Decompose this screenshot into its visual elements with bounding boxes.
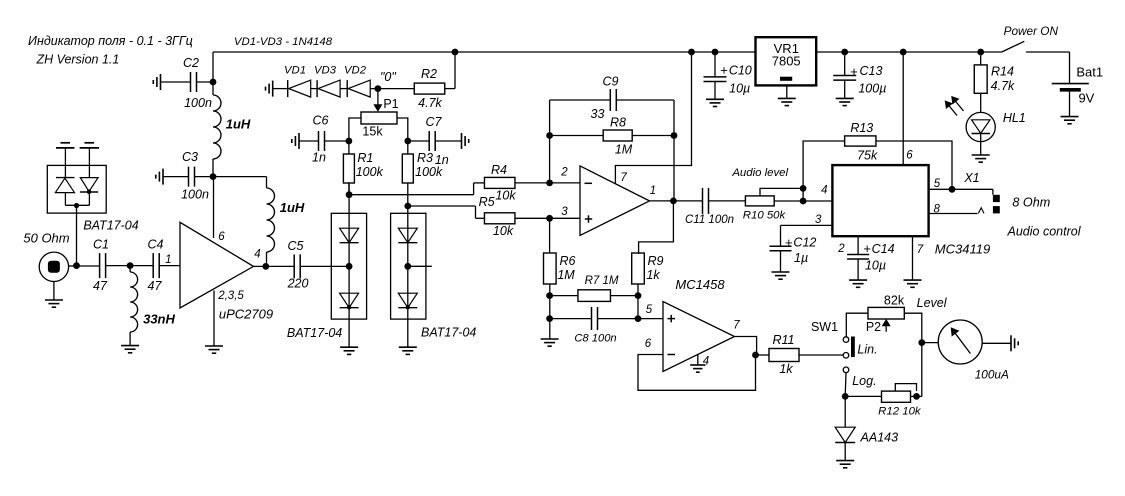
svg-text:47: 47 <box>148 279 163 293</box>
svg-text:2: 2 <box>837 243 845 255</box>
svg-text:R8: R8 <box>610 116 626 130</box>
svg-text:C6: C6 <box>313 114 329 128</box>
svg-text:R4: R4 <box>491 163 507 177</box>
svg-text:3: 3 <box>561 206 568 218</box>
svg-text:10k: 10k <box>493 224 514 238</box>
svg-text:Power ON: Power ON <box>1004 24 1059 38</box>
svg-text:R2: R2 <box>421 67 437 81</box>
svg-text:100µ: 100µ <box>858 81 886 95</box>
svg-text:C1: C1 <box>93 238 109 252</box>
svg-text:50 Ohm: 50 Ohm <box>23 231 69 246</box>
svg-text:100k: 100k <box>356 165 384 179</box>
svg-text:uPC2709: uPC2709 <box>219 307 273 322</box>
svg-text:C12: C12 <box>793 236 816 250</box>
svg-text:1: 1 <box>650 185 656 197</box>
svg-text:VD1-VD3 - 1N4148: VD1-VD3 - 1N4148 <box>234 36 333 48</box>
svg-text:R5: R5 <box>479 195 495 209</box>
svg-text:R13: R13 <box>850 121 873 135</box>
svg-text:BAT17-04: BAT17-04 <box>287 326 342 340</box>
svg-text:P1: P1 <box>383 97 398 111</box>
svg-text:BAT17-04: BAT17-04 <box>83 219 138 233</box>
svg-text:2: 2 <box>560 167 568 179</box>
svg-text:4.7k: 4.7k <box>991 79 1015 93</box>
svg-text:VD2: VD2 <box>344 65 367 77</box>
svg-text:7: 7 <box>620 172 627 184</box>
svg-text:100n: 100n <box>181 188 209 202</box>
svg-text:R11: R11 <box>772 333 794 347</box>
svg-text:SW1: SW1 <box>811 320 838 334</box>
svg-text:P2: P2 <box>866 320 881 334</box>
svg-text:4: 4 <box>821 184 827 196</box>
svg-text:1n: 1n <box>312 151 326 165</box>
svg-text:MC34119: MC34119 <box>935 242 990 257</box>
svg-text:6: 6 <box>645 338 652 350</box>
svg-text:10k: 10k <box>495 189 516 203</box>
svg-text:+: + <box>720 63 728 78</box>
svg-text:X1: X1 <box>963 171 979 185</box>
svg-text:1µ: 1µ <box>794 251 808 265</box>
svg-text:+: + <box>785 235 793 250</box>
svg-text:5: 5 <box>934 178 941 190</box>
svg-text:3: 3 <box>815 214 822 226</box>
svg-text:9V: 9V <box>1078 91 1094 106</box>
svg-text:C9: C9 <box>603 75 619 89</box>
svg-text:Audio control: Audio control <box>1007 225 1082 239</box>
svg-text:4: 4 <box>254 249 260 261</box>
svg-text:R3: R3 <box>417 151 433 165</box>
svg-text:VD1: VD1 <box>284 65 306 77</box>
svg-text:100uA: 100uA <box>975 368 1009 382</box>
svg-text:R9: R9 <box>648 254 664 268</box>
svg-text:C5: C5 <box>288 239 304 253</box>
svg-text:R12 10k: R12 10k <box>878 406 922 418</box>
svg-text:10µ: 10µ <box>865 259 886 273</box>
svg-text:MC1458: MC1458 <box>675 277 725 292</box>
svg-text:R14: R14 <box>991 65 1014 79</box>
svg-text:Log.: Log. <box>852 374 876 388</box>
svg-text:R7 1M: R7 1M <box>585 275 619 287</box>
svg-text:1M: 1M <box>615 143 633 157</box>
svg-text:AA143: AA143 <box>860 431 899 445</box>
svg-text:"0": "0" <box>380 70 396 84</box>
svg-text:C8 100n: C8 100n <box>574 333 616 345</box>
svg-text:BAT17-04: BAT17-04 <box>421 326 476 340</box>
svg-text:C2: C2 <box>183 56 199 70</box>
svg-text:C13: C13 <box>860 64 883 78</box>
svg-text:4.7k: 4.7k <box>418 96 442 110</box>
svg-text:33nH: 33nH <box>143 312 175 327</box>
svg-text:C11 100n: C11 100n <box>685 214 734 226</box>
svg-text:C10: C10 <box>729 64 752 78</box>
svg-text:Level: Level <box>917 296 948 310</box>
svg-text:Индикатор поля - 0.1 - 3ГГц: Индикатор поля - 0.1 - 3ГГц <box>28 34 193 48</box>
svg-text:1k: 1k <box>646 268 660 282</box>
svg-text:47: 47 <box>93 279 108 293</box>
svg-text:10µ: 10µ <box>729 82 750 96</box>
svg-text:15k: 15k <box>362 125 383 139</box>
svg-text:75k: 75k <box>857 149 878 163</box>
svg-text:R6: R6 <box>560 254 576 268</box>
svg-text:+: + <box>850 64 858 79</box>
svg-text:82k: 82k <box>884 294 905 308</box>
svg-text:2,3,5: 2,3,5 <box>217 290 244 302</box>
svg-text:Lin.: Lin. <box>857 343 877 357</box>
svg-text:6: 6 <box>906 150 913 162</box>
svg-text:5: 5 <box>646 304 653 316</box>
svg-text:ZH Version 1.1: ZH Version 1.1 <box>35 53 119 67</box>
svg-text:VD3: VD3 <box>314 65 337 77</box>
svg-text:C14: C14 <box>872 242 895 256</box>
svg-text:7805: 7805 <box>772 54 801 69</box>
svg-text:C3: C3 <box>182 150 198 164</box>
svg-text:7: 7 <box>917 244 924 256</box>
svg-text:+: + <box>863 241 871 256</box>
svg-text:220: 220 <box>287 277 309 291</box>
svg-text:6: 6 <box>218 231 225 243</box>
svg-text:7: 7 <box>733 320 740 332</box>
svg-text:HL1: HL1 <box>1003 111 1026 125</box>
svg-text:Bat1: Bat1 <box>1076 65 1103 80</box>
svg-text:8 Ohm: 8 Ohm <box>1012 196 1050 210</box>
svg-text:R1: R1 <box>357 151 373 165</box>
svg-text:Audio level: Audio level <box>731 167 788 179</box>
svg-text:R10 50k: R10 50k <box>743 210 787 222</box>
svg-text:1uH: 1uH <box>226 117 251 132</box>
svg-text:1k: 1k <box>779 362 793 376</box>
svg-text:33: 33 <box>591 107 605 121</box>
svg-text:C7: C7 <box>426 115 443 129</box>
svg-text:C4: C4 <box>148 238 164 252</box>
svg-text:1uH: 1uH <box>280 200 305 215</box>
svg-text:1M: 1M <box>557 268 575 282</box>
svg-text:8: 8 <box>933 203 940 215</box>
svg-text:100k: 100k <box>415 165 443 179</box>
svg-text:1: 1 <box>165 254 171 266</box>
svg-text:100n: 100n <box>184 96 212 110</box>
